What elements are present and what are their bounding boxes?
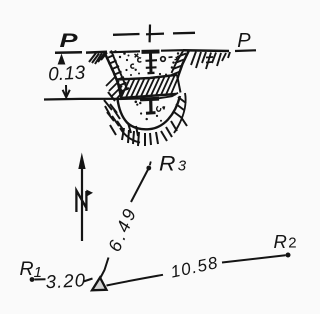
outer contour bottom left of bowl xyxy=(120,128,140,143)
lower pit bowl outline xyxy=(118,96,181,129)
concrete slab top edge xyxy=(117,75,177,80)
line 3.20 to station xyxy=(84,279,93,282)
north arrow head xyxy=(78,153,85,170)
bowl dots xyxy=(135,101,165,122)
benchmark 1 tick 2 xyxy=(146,66,157,69)
right pit wall outer edge xyxy=(178,50,190,78)
surrounding hatching below bowl xyxy=(122,123,158,146)
bowl mark tick xyxy=(163,106,166,109)
concrete slab bottom edge xyxy=(121,94,176,98)
svg-text:R: R xyxy=(159,153,176,176)
concrete slab left end xyxy=(117,80,121,99)
svg-text:3.20: 3.20 xyxy=(45,269,86,292)
sand mark c xyxy=(138,58,142,62)
sand dash right xyxy=(169,56,173,58)
benchmark 2 top bar xyxy=(140,97,159,102)
bowl mark o xyxy=(157,107,161,112)
centerline left dash xyxy=(113,33,140,36)
point R2 dot xyxy=(286,253,291,258)
surrounding hatching right of bowl xyxy=(161,97,187,141)
outer contour right of bowl xyxy=(174,93,186,133)
right wall hatch rungs xyxy=(172,54,187,76)
benchmark 1 foot xyxy=(148,72,155,75)
svg-text:P: P xyxy=(60,31,78,52)
P left underline xyxy=(55,51,82,54)
left wall hatch rungs xyxy=(106,55,129,92)
sand circle right xyxy=(161,57,166,62)
surface hatching right xyxy=(191,52,230,70)
ground surface line left xyxy=(86,51,107,54)
left pit wall outer edge xyxy=(105,53,123,94)
north arrow stem xyxy=(81,167,83,241)
north letter flag xyxy=(86,190,93,197)
line 10.58 to R2 xyxy=(222,255,286,262)
svg-text:0.13: 0.13 xyxy=(48,63,86,86)
svg-text:2: 2 xyxy=(288,235,296,252)
left wall shading strokes xyxy=(106,76,124,100)
dimension arrow down xyxy=(63,85,70,97)
sand mark 3 right xyxy=(175,57,177,59)
svg-text:P: P xyxy=(237,30,251,52)
line 6.49 to R3 xyxy=(131,170,148,203)
surface right tick marks xyxy=(206,57,213,63)
sand mark open circle left xyxy=(131,64,134,68)
benchmark 2 foot xyxy=(146,111,156,115)
concrete slab right end xyxy=(177,75,181,93)
svg-text:3: 3 xyxy=(178,158,187,175)
surface hatching left xyxy=(89,53,107,65)
surrounding hatching left of bowl xyxy=(104,92,124,135)
centerline cross xyxy=(146,25,164,43)
sand mark x xyxy=(135,54,139,58)
benchmark 1 tick 1 xyxy=(146,59,158,62)
line station to 6.49 xyxy=(100,258,108,279)
pit opening edge line xyxy=(110,50,184,52)
sand dots right xyxy=(138,52,179,75)
ground surface line right xyxy=(183,49,229,52)
line R1 to 3.20 xyxy=(35,278,46,280)
concrete hatching xyxy=(121,76,179,98)
benchmark 1 top bar xyxy=(142,50,160,54)
lower pit top edge xyxy=(118,93,178,99)
point R1 dot xyxy=(30,277,35,282)
line station to 10.58 xyxy=(107,275,164,286)
P right underline xyxy=(235,49,256,52)
sand dots left xyxy=(114,50,137,76)
dimension arrow up xyxy=(58,54,66,65)
point R3 dot xyxy=(146,166,151,171)
svg-text:R: R xyxy=(274,231,287,252)
lower reference line xyxy=(44,98,122,101)
centerline right dash xyxy=(173,32,195,35)
right pit wall inner edge xyxy=(172,51,184,73)
station triangle xyxy=(92,278,107,291)
north letter N xyxy=(76,191,86,213)
benchmark 1 stem xyxy=(149,54,153,74)
R3 small tick xyxy=(150,162,151,166)
left pit wall inner edge xyxy=(111,51,128,91)
benchmark 2 stem xyxy=(149,100,153,112)
